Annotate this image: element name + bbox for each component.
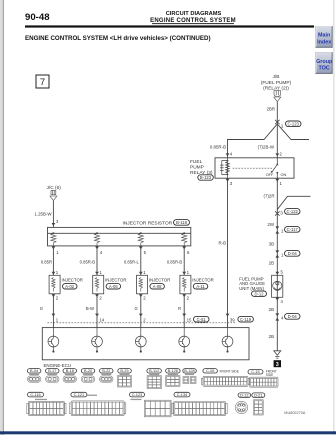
connector label B-22	[100, 368, 114, 373]
button Main Index	[316, 26, 333, 47]
svg-text:B-20: B-20	[84, 368, 93, 373]
injector resistor box	[48, 227, 191, 246]
injector pin 2 labels	[56, 296, 190, 301]
resistor R2	[94, 233, 99, 246]
svg-text:INJECTOR: INJECTOR	[149, 278, 170, 283]
svg-text:A-11: A-11	[196, 284, 205, 289]
connector label B-128	[183, 368, 197, 373]
svg-text:G: G	[135, 306, 138, 311]
branch diagonal to right	[277, 196, 310, 209]
svg-text:2B: 2B	[269, 307, 274, 312]
svg-text:15: 15	[187, 317, 192, 322]
connector label D-21	[252, 392, 265, 397]
connector label B-17	[46, 368, 60, 373]
connector pass D-04	[275, 250, 279, 253]
page left edge line	[3, 0, 4, 435]
wire Y branch left	[228, 124, 278, 158]
connector label B-18	[63, 368, 77, 373]
page left edge band	[0, 0, 3, 435]
fuel pump unit label	[239, 277, 265, 291]
ECU box	[42, 328, 249, 360]
svg-text:PUMP: PUMP	[190, 165, 204, 171]
connector label D-12	[252, 291, 267, 296]
svg-text:C-122: C-122	[286, 209, 298, 214]
relay coil	[220, 158, 230, 178]
wire Y branch right	[277, 124, 309, 140]
wire column 2	[96, 246, 98, 275]
svg-text:2B: 2B	[269, 334, 274, 339]
fuel pump unit box	[272, 275, 283, 297]
svg-text:B-22: B-22	[102, 368, 110, 373]
transistor Q4	[179, 328, 190, 352]
svg-text:Main: Main	[318, 33, 330, 39]
svg-text:CIRCUIT DIAGRAMS: CIRCUIT DIAGRAMS	[166, 11, 222, 17]
injector 4	[180, 275, 214, 294]
svg-text:B-04: B-04	[30, 368, 39, 373]
svg-text:OFF: OFF	[266, 173, 274, 177]
svg-text:TOC: TOC	[319, 66, 330, 72]
svg-text:INJECTOR: INJECTOR	[105, 278, 126, 283]
connector label C-05	[203, 368, 218, 373]
page right edge line	[333, 0, 336, 435]
connector label B-20	[81, 368, 95, 373]
connector label C-123	[286, 121, 302, 127]
svg-text:0.85R-B: 0.85R-B	[80, 260, 96, 265]
svg-text:B-18: B-18	[66, 368, 74, 373]
svg-text:90-48: 90-48	[25, 12, 50, 23]
svg-text:INJECTOR: INJECTOR	[62, 278, 83, 283]
relay dashed link	[233, 167, 274, 169]
wire labels 0.85R etc	[41, 260, 183, 265]
connector label C-134	[174, 392, 190, 397]
svg-text:39: 39	[230, 317, 235, 322]
svg-text:D-04: D-04	[288, 314, 298, 319]
injector 2	[93, 275, 127, 294]
connector label B-126	[166, 368, 181, 373]
svg-text:C-05: C-05	[206, 368, 214, 373]
J/C connector symbol	[50, 190, 57, 200]
figure number box 7	[36, 75, 49, 88]
J/B (FUEL PUMP) RELAY (2) label	[261, 74, 292, 92]
svg-text:B-123: B-123	[200, 175, 212, 180]
relay box	[215, 158, 294, 178]
ECU pin arrows	[52, 314, 230, 317]
transistor Q3	[135, 328, 146, 352]
svg-text:B-112: B-112	[149, 368, 159, 373]
svg-text:D-21: D-21	[254, 392, 262, 397]
connector label B-04	[27, 368, 41, 373]
relay switch	[272, 158, 278, 178]
svg-text:ON: ON	[281, 173, 287, 177]
svg-text:3: 3	[276, 362, 279, 368]
connector label D-12	[238, 392, 251, 397]
svg-text:A-05: A-05	[109, 284, 119, 289]
wire column 4	[183, 246, 185, 275]
svg-text:R-B: R-B	[218, 241, 226, 246]
connector label C-513	[194, 316, 210, 322]
svg-text:ENGINE CONTROL SYSTEM: ENGINE CONTROL SYSTEM	[150, 18, 236, 24]
injector 1	[49, 275, 83, 294]
svg-text:A-08: A-08	[153, 284, 163, 289]
svg-text:SIDE: SIDE	[266, 373, 273, 377]
svg-text:(7)2B-W: (7)2B-W	[258, 145, 275, 150]
svg-text:Group: Group	[316, 59, 333, 65]
svg-text:3: 3	[280, 211, 283, 217]
svg-text:C-134: C-134	[177, 392, 188, 397]
svg-text:UNIT (MAIN): UNIT (MAIN)	[239, 286, 264, 291]
connector label C-122	[285, 209, 301, 215]
svg-text:14: 14	[99, 317, 104, 322]
wires injectors to ECU	[52, 294, 54, 328]
wire 2BR from J/B down to junction	[276, 102, 278, 122]
transistor Q1	[48, 328, 59, 352]
svg-text:C-119: C-119	[240, 317, 252, 322]
node junction 1 (X splice)	[275, 120, 280, 124]
wire from relay pin 3 down to ECU	[227, 178, 229, 327]
wire relay pin1 down	[276, 178, 278, 350]
wire column 3	[140, 246, 142, 275]
svg-text:D-04: D-04	[288, 251, 298, 256]
connector label B-123	[198, 175, 214, 180]
connector label B-112	[147, 368, 162, 373]
svg-text:FRONT SIDE: FRONT SIDE	[220, 370, 239, 374]
page bottom navy band	[0, 431, 336, 434]
svg-text:D-12: D-12	[240, 392, 248, 397]
svg-text:C-116: C-116	[30, 392, 40, 397]
svg-text:D-12: D-12	[254, 291, 264, 296]
svg-text:7: 7	[40, 77, 45, 88]
ground point marker 3	[274, 360, 281, 368]
svg-text:(7)2R: (7)2R	[264, 194, 275, 199]
svg-text:3B: 3B	[269, 242, 274, 247]
wire colour labels	[40, 306, 181, 311]
fuel pump motor symbol	[273, 281, 282, 290]
connector label C-121	[71, 392, 87, 397]
resistor R4	[182, 233, 187, 246]
svg-text:B-128: B-128	[184, 368, 194, 373]
svg-text:FUEL: FUEL	[190, 159, 203, 165]
svg-text:Index: Index	[317, 40, 331, 46]
injector pin 1 labels	[56, 270, 190, 275]
svg-text:B-25: B-25	[120, 368, 128, 373]
svg-text:0.85R-L: 0.85R-L	[124, 260, 140, 265]
svg-text:C-117: C-117	[287, 227, 299, 232]
connector label C-116	[28, 392, 44, 397]
svg-text:B-126: B-126	[168, 368, 178, 373]
svg-text:C-123: C-123	[287, 122, 299, 127]
svg-text:0.85R: 0.85R	[41, 260, 52, 265]
svg-text:0.85R-B: 0.85R-B	[210, 145, 226, 150]
J/B connector symbol	[274, 91, 281, 102]
svg-text:2BR: 2BR	[267, 107, 275, 112]
transistor Q5	[222, 328, 233, 352]
resistor R1	[51, 233, 56, 246]
connector label C-123	[130, 392, 145, 397]
ground symbol	[274, 351, 281, 358]
svg-text:2B: 2B	[269, 261, 274, 266]
injector 3	[137, 275, 171, 294]
svg-text:A-02: A-02	[65, 284, 75, 289]
svg-text:1.25B-W: 1.25B-W	[34, 212, 52, 217]
resistor R3	[138, 233, 143, 246]
node junction 3 (X splice)	[275, 211, 280, 215]
wire column 1	[52, 246, 54, 275]
relay name label	[190, 159, 213, 176]
svg-text:C-121: C-121	[74, 392, 85, 397]
svg-text:INJECTOR RESISTOR: INJECTOR RESISTOR	[123, 221, 173, 227]
svg-text:C-51: C-51	[197, 317, 207, 322]
wire center to relay pin 2	[276, 122, 278, 158]
connector label C-15	[248, 369, 263, 374]
svg-text:C-123: C-123	[132, 392, 143, 397]
svg-text:B-17: B-17	[48, 368, 56, 373]
resistor box exit pins 1 4 5 6	[52, 246, 187, 249]
svg-text:G: G	[40, 306, 43, 311]
svg-text:2W: 2W	[267, 222, 274, 227]
transistor Q2	[92, 328, 103, 352]
svg-text:MU802270A: MU802270A	[284, 411, 306, 415]
connector label B-25	[118, 368, 132, 373]
svg-text:ENGINE CONTROL SYSTEM <LH driv: ENGINE CONTROL SYSTEM <LH drive vehicles…	[25, 35, 211, 42]
svg-text:0.85R-B: 0.85R-B	[167, 260, 183, 265]
connector pass D-04 lower	[275, 313, 279, 316]
ECU pin numbers	[56, 317, 235, 322]
resistor bus bar	[48, 232, 191, 234]
svg-text:R: R	[178, 306, 181, 311]
connector label C-119	[238, 316, 254, 322]
button Group TOC	[316, 52, 333, 73]
connector label B-118	[174, 220, 190, 226]
svg-text:INJECTOR: INJECTOR	[192, 278, 213, 283]
connector pass C-117	[275, 226, 279, 229]
ECU connector dashed line	[48, 322, 237, 324]
svg-text:B-118: B-118	[176, 220, 188, 225]
svg-text:C-15: C-15	[251, 369, 259, 374]
header thick rule	[25, 25, 314, 27]
wire J/C to resistor box	[52, 201, 54, 227]
svg-text:J/B: J/B	[273, 74, 280, 80]
svg-text:B-W: B-W	[86, 306, 94, 311]
svg-text:(FUEL PUMP): (FUEL PUMP)	[261, 80, 292, 86]
